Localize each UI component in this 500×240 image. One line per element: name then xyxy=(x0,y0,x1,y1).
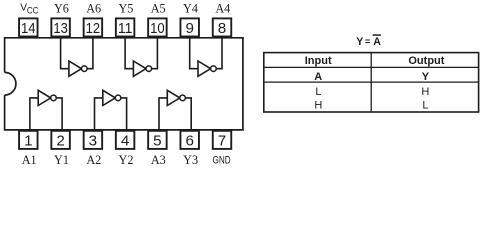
index notch (pin-1 end semicircle) xyxy=(5,72,16,95)
svg-text:A: A xyxy=(314,71,322,83)
svg-text:A6: A6 xyxy=(86,1,101,15)
pin 6 box xyxy=(180,131,199,150)
svg-text:6: 6 xyxy=(185,133,193,150)
wire: inverter gate C (pins 9-8) output up to pin 8 xyxy=(216,37,222,68)
svg-text:A4: A4 xyxy=(215,1,230,15)
pin 2 box xyxy=(51,131,70,150)
wire: inverter gate F (pins 5-6) output down to pin 6 xyxy=(185,98,191,130)
svg-text:A5: A5 xyxy=(151,1,166,15)
inverter gate E (pins 3-4) triangle xyxy=(103,90,116,105)
truth table outer border xyxy=(264,53,479,112)
inverter gate C (pins 9-8) output inversion bubble xyxy=(211,66,217,72)
svg-text:Output: Output xyxy=(408,55,444,67)
svg-text:=: = xyxy=(365,37,370,47)
pin 1 box xyxy=(19,131,38,150)
pin 10 box xyxy=(148,18,167,37)
svg-text:7: 7 xyxy=(218,133,226,150)
inverter gate B (pins 11-10) output inversion bubble xyxy=(146,66,152,72)
svg-text:Y5: Y5 xyxy=(118,1,133,15)
svg-text:13: 13 xyxy=(53,20,68,37)
pin 8 box xyxy=(213,18,232,37)
truth table header underline xyxy=(264,66,479,68)
svg-text:3: 3 xyxy=(89,133,97,150)
svg-text:Input: Input xyxy=(305,55,332,67)
function equation label Y = A-bar xyxy=(356,34,381,48)
svg-text:GND: GND xyxy=(213,154,231,166)
wire: inverter gate A (pins 13-12) output up to pin 12 xyxy=(87,37,93,68)
wire: pin 3 up to inverter gate E (pins 3-4) input xyxy=(95,98,103,130)
pin 7 box xyxy=(213,131,232,150)
inverter gate F (pins 5-6) triangle xyxy=(167,90,180,105)
svg-text:14: 14 xyxy=(21,20,36,37)
inverter gate F (pins 5-6) output inversion bubble xyxy=(180,95,186,101)
svg-text:11: 11 xyxy=(118,20,133,37)
wire: pin 5 up to inverter gate F (pins 5-6) input xyxy=(159,98,167,130)
svg-text:4: 4 xyxy=(121,133,129,150)
svg-text:12: 12 xyxy=(86,20,101,37)
inverter gate A (pins 13-12) output inversion bubble xyxy=(82,66,88,72)
wire: pin 11 down to inverter gate B (pins 11-10) input xyxy=(125,37,133,68)
wire: inverter gate B (pins 11-10) output up to pin 10 xyxy=(152,37,158,68)
svg-text:H: H xyxy=(421,86,429,98)
pin 14 box xyxy=(19,18,38,37)
IC package body (DIP-14 outline) xyxy=(5,38,243,130)
wire: pin 1 up to inverter gate D (pins 1-2) input xyxy=(30,98,38,130)
inverter gate A (pins 13-12) triangle xyxy=(69,61,82,76)
pin 12 box xyxy=(84,18,103,37)
svg-text:A1: A1 xyxy=(22,153,37,167)
inverter gate D (pins 1-2) triangle xyxy=(38,90,51,105)
wire: pin 9 down to inverter gate C (pins 9-8) input xyxy=(190,37,198,68)
svg-text:L: L xyxy=(422,100,428,112)
pin 13 box xyxy=(51,18,70,37)
svg-text:A2: A2 xyxy=(86,153,101,167)
svg-text:Y: Y xyxy=(356,36,363,48)
truth table column divider xyxy=(370,53,372,112)
svg-text:A3: A3 xyxy=(151,153,166,167)
inverter gate E (pins 3-4) output inversion bubble xyxy=(115,95,121,101)
inverter gate C (pins 9-8) triangle xyxy=(198,61,211,76)
pin 14 name label VCC xyxy=(20,3,39,16)
truth table signal-row underline xyxy=(264,81,479,83)
svg-text:8: 8 xyxy=(218,20,226,37)
wire: inverter gate E (pins 3-4) output down to pin 4 xyxy=(121,98,127,130)
pin 5 box xyxy=(148,131,167,150)
svg-text:2: 2 xyxy=(56,133,64,150)
svg-text:5: 5 xyxy=(153,133,161,150)
pin 4 box xyxy=(116,131,135,150)
svg-text:Y4: Y4 xyxy=(183,1,198,15)
wire: pin 13 down to inverter gate A (pins 13-12) input xyxy=(61,37,69,68)
svg-text:1: 1 xyxy=(24,133,32,150)
inverter gate B (pins 11-10) triangle xyxy=(133,61,146,76)
svg-text:H: H xyxy=(314,100,322,112)
pin 11 box xyxy=(116,18,135,37)
svg-text:A: A xyxy=(373,36,381,48)
svg-text:Y6: Y6 xyxy=(54,1,69,15)
svg-text:L: L xyxy=(315,86,321,98)
svg-text:Y: Y xyxy=(422,71,430,83)
svg-text:Y2: Y2 xyxy=(119,153,134,167)
inverter gate D (pins 1-2) output inversion bubble xyxy=(51,95,57,101)
svg-text:CC: CC xyxy=(27,5,39,15)
pin 3 box xyxy=(84,131,103,150)
svg-text:9: 9 xyxy=(185,20,193,37)
svg-text:Y1: Y1 xyxy=(54,153,69,167)
svg-text:Y3: Y3 xyxy=(183,153,198,167)
pin 9 box xyxy=(180,18,199,37)
svg-text:10: 10 xyxy=(150,20,165,37)
wire: inverter gate D (pins 1-2) output down to pin 2 xyxy=(56,98,62,130)
